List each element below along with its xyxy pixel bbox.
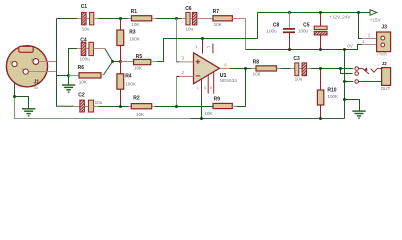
svg-text:C1: C1 (81, 4, 88, 10)
svg-text:R5: R5 (136, 54, 143, 60)
J1 pin holes (12, 61, 17, 66)
resistor R6 10K (69, 65, 104, 84)
svg-text:1: 1 (196, 45, 198, 49)
capacitor C1 10u (81, 4, 94, 31)
svg-text:v+: v+ (207, 45, 211, 49)
svg-text:10K: 10K (214, 22, 223, 27)
J2 switch contact (359, 69, 382, 74)
svg-text:10K: 10K (134, 66, 143, 71)
connector J1 (XLR) body (6, 46, 47, 87)
wire: to right ground (345, 100, 360, 111)
wire: loop up to +V rail (257, 13, 259, 39)
svg-text:In: In (34, 85, 38, 90)
wire: C3 to jack (311, 68, 354, 70)
wire: XLR pin3 lead (29, 71, 57, 73)
wire: R8 to C3 (281, 68, 291, 70)
wire: J3 pin1 lead (362, 44, 377, 46)
svg-text:2: 2 (31, 58, 33, 62)
resistor R2 10K (129, 96, 155, 118)
wire: down to R10 (320, 69, 322, 91)
svg-text:R1: R1 (131, 9, 138, 15)
svg-text:NE5534: NE5534 (220, 78, 238, 84)
capacitor C5 100u (298, 13, 327, 50)
svg-text:+12V..24V: +12V..24V (329, 14, 351, 19)
ground (right) (352, 111, 365, 118)
svg-text:C3: C3 (293, 56, 300, 62)
wire: R5 up to top loop (157, 39, 258, 62)
op-amp U1 NE5534 (177, 39, 238, 94)
node: input node dot2 (119, 60, 122, 63)
svg-text:J2: J2 (382, 61, 388, 66)
0V rail (246, 45, 362, 50)
svg-text:100: 100 (253, 71, 261, 76)
svg-text:C2: C2 (78, 93, 85, 99)
wire: XLR pin2 lead (39, 61, 57, 63)
svg-text:100K: 100K (129, 37, 141, 42)
connector J2 jack contacts (355, 67, 359, 84)
svg-text:R6: R6 (78, 65, 85, 71)
svg-text:R9: R9 (214, 97, 221, 103)
wire: input vertical from XLR pin1 (14, 66, 16, 97)
wire: R2 to R9 (155, 106, 214, 108)
svg-text:0V: 0V (347, 44, 352, 49)
wire: node T to C6 (177, 18, 182, 20)
wire: C4 diagonal to node (105, 49, 113, 62)
svg-text:100u: 100u (80, 56, 91, 61)
+V rail (258, 12, 371, 14)
wire: op-amp V- down to bus (201, 94, 203, 119)
wire: dot1-dot2 (113, 61, 121, 63)
svg-text:J3: J3 (381, 24, 387, 30)
svg-text:10K: 10K (136, 112, 145, 117)
svg-text:PWR: PWR (377, 52, 387, 57)
wire: stub to left ground (15, 97, 29, 109)
resistor R1 10K (128, 9, 156, 27)
svg-text:10u: 10u (295, 77, 303, 82)
ground (left, chassis) (22, 109, 35, 116)
svg-text:R3: R3 (129, 30, 136, 36)
capacitor C8 100u (266, 13, 295, 50)
svg-text:100K: 100K (327, 94, 339, 99)
wire: J3 pin2 branch (359, 13, 362, 39)
svg-text:U1: U1 (220, 73, 227, 79)
resistor R9 10K (204, 97, 236, 116)
svg-text:C6: C6 (185, 6, 192, 12)
wire: vertical feedback x=176 lower (176, 77, 178, 107)
svg-text:100K: 100K (125, 82, 137, 87)
wire: C6 to R7 (197, 18, 213, 20)
capacitor C2 10u (78, 93, 102, 112)
node: XLR ground junction (13, 95, 16, 98)
wire: C2 to R2 (98, 106, 129, 108)
wire: C1 to R1 (94, 18, 98, 20)
svg-text:8: 8 (210, 86, 212, 90)
resistor R7 10K (213, 9, 246, 27)
top stub V+ (212, 44, 214, 54)
svg-text:+15V: +15V (370, 17, 382, 22)
connector J3 body (362, 24, 390, 56)
wire: R1 to node T (156, 18, 177, 20)
capacitor C6 10u (185, 6, 197, 32)
ground (under XLR) (62, 76, 75, 93)
svg-text:5: 5 (204, 86, 206, 90)
node: input bias junction (67, 74, 70, 77)
svg-text:10u: 10u (185, 26, 193, 31)
resistor R8 100 (252, 59, 281, 76)
svg-text:1: 1 (10, 60, 12, 64)
wire: 0V vertical drop (344, 50, 346, 119)
wire: R6 diagonal to dot1 (104, 62, 113, 75)
pin 3 (177, 61, 180, 63)
svg-text:10K: 10K (79, 80, 88, 85)
svg-text:R4: R4 (125, 74, 132, 80)
wire: R7 down to 0V rail (245, 19, 247, 50)
svg-text:R2: R2 (133, 96, 140, 102)
power flag +15V (370, 10, 377, 16)
svg-text:100u: 100u (298, 29, 309, 34)
wire: bottom 0V bus (15, 97, 191, 119)
svg-text:C4: C4 (80, 37, 87, 43)
bottom pins (201, 79, 203, 93)
node: op-amp top pin junction (201, 37, 204, 40)
node T: R1/C6 junction (175, 17, 178, 20)
wire: main input vertical x=56 (56, 19, 58, 107)
svg-text:R8: R8 (253, 59, 260, 65)
pin 6 output (220, 68, 230, 70)
resistor R4 100K (117, 62, 137, 107)
wire: top horizontal to C1 (57, 18, 78, 20)
wire: jack sleeve to 0V vertical (345, 81, 354, 83)
resistor R3 100K (117, 19, 141, 62)
wire: output node (230, 68, 252, 70)
svg-text:R7: R7 (213, 9, 220, 15)
svg-text:10K: 10K (204, 111, 213, 116)
capacitor C4 100u (69, 37, 105, 75)
wire: bottom feedback run (56, 105, 74, 107)
top pin (bal) (202, 39, 204, 54)
node: R3 top (119, 17, 122, 20)
svg-text:10K: 10K (131, 22, 140, 27)
J2 sleeve lead to box (359, 81, 382, 83)
svg-text:10u: 10u (95, 100, 103, 105)
wire: jack ring branch (341, 69, 353, 74)
svg-text:1: 1 (197, 86, 199, 90)
svg-text:OUT: OUT (381, 86, 391, 91)
pin 2 (177, 76, 180, 78)
resistor R10 100K (317, 88, 339, 119)
wire: to input ground dot (57, 75, 69, 77)
svg-text:3: 3 (22, 68, 24, 72)
svg-text:R10: R10 (327, 88, 336, 94)
resistor R5 10K (121, 54, 158, 70)
svg-text:100u: 100u (266, 29, 277, 34)
wire: vertical input feed x=176 upper (176, 19, 178, 62)
node: input node dot1 (111, 60, 114, 63)
capacitor C3 10u (293, 56, 310, 81)
svg-text:10u: 10u (82, 26, 90, 31)
node: right ground tap (343, 98, 346, 101)
connector J2 body (382, 68, 391, 86)
wire: R9 to output vertical (237, 106, 246, 108)
wire: output down to R9 (245, 69, 247, 107)
